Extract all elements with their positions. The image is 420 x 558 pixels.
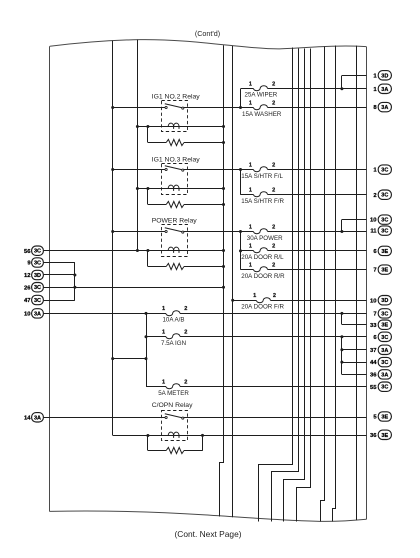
junction dot: WIPER branch / washer row bbox=[239, 106, 242, 109]
svg-text:3C: 3C bbox=[34, 285, 41, 291]
svg-text:2: 2 bbox=[272, 162, 275, 168]
svg-text:3E: 3E bbox=[381, 415, 388, 421]
wire: C/OPN coil row from bus L1 corner to pin 36(3E) bbox=[113, 435, 367, 437]
wire: 7.5A IGN fuse row left lead bbox=[146, 336, 166, 338]
fuse F1 element (25A WIPER) bbox=[254, 86, 268, 91]
relay U1 (IG1 NO.2) switch contact (right) bbox=[182, 107, 184, 109]
svg-text:10: 10 bbox=[370, 218, 377, 224]
junction dot: bus M1 / POWER resistor row bbox=[222, 265, 225, 268]
connector label 14 3A (left pin 14 3A) bbox=[24, 413, 43, 422]
connector label 10 3D (right pin 10 3D) bbox=[370, 296, 391, 305]
junction dot: bus L1 / IG1 NO.3 switch row bbox=[111, 168, 114, 171]
junction dot: bus L1 / IG1 NO.2 switch row bbox=[111, 106, 114, 109]
wire: pin 47(3C) row to step bus bbox=[44, 300, 75, 302]
svg-text:25A WIPER: 25A WIPER bbox=[245, 92, 278, 99]
svg-text:3A: 3A bbox=[381, 348, 388, 354]
junction dot: bus L2 / IG1 NO.3 coil row bbox=[136, 187, 139, 190]
svg-text:1: 1 bbox=[253, 293, 256, 299]
wire: C/OPN right jumper down to resistor row bbox=[202, 435, 204, 450]
junction dot: bus M1 / IG1 NO.3 resistor row bbox=[222, 203, 225, 206]
left step bus joining pins 9/12/26/47 bbox=[74, 263, 76, 301]
wire: branch row to pin 36(3A) bbox=[342, 374, 367, 376]
wire: 25A WIPER fuse row left lead bbox=[241, 88, 254, 90]
wire: branch row to pin 44(3C) bbox=[342, 362, 367, 364]
svg-text:10: 10 bbox=[370, 298, 377, 304]
svg-text:3C: 3C bbox=[34, 249, 41, 255]
fuse F10 element (7.5A IGN) bbox=[166, 334, 180, 339]
connector label 37 3A (right pin 37 3A) bbox=[370, 345, 391, 354]
relay U4 (C/OPN) parallel resistor element bbox=[166, 447, 184, 453]
svg-text:15A S/HTR F/R: 15A S/HTR F/R bbox=[241, 198, 284, 205]
relay U2 (IG1 NO.3) resistor left lead wire bbox=[148, 204, 166, 206]
junction dot: bus M1 / IG1 NO.3 coil row bbox=[222, 187, 225, 190]
relay U3 (POWER) parallel resistor element bbox=[166, 263, 184, 269]
relay U2 (IG1 NO.3) switch contact (left) bbox=[165, 168, 167, 170]
relay U4 (C/OPN) switch contact (right) bbox=[182, 417, 184, 419]
junction dot: stub SA / 30A POWER row bbox=[340, 230, 343, 233]
wire: IG1 NO.3 switch row from bus L1 to switch contact bbox=[113, 169, 166, 171]
svg-text:3A: 3A bbox=[381, 105, 388, 111]
junction dot: mid feed column / 7.5A IGN row bbox=[145, 335, 148, 338]
svg-text:2: 2 bbox=[184, 330, 187, 336]
svg-text:15A WASHER: 15A WASHER bbox=[242, 111, 282, 118]
svg-text:56: 56 bbox=[24, 249, 31, 255]
relay U1 (IG1 NO.2) coil winding bbox=[168, 123, 179, 129]
relay U4 (C/OPN) switch blade (open, resting above contacts) bbox=[165, 414, 182, 418]
junction dot: step bus / 12(3D) row bbox=[73, 274, 76, 277]
connector label 6 3E (right pin 6 3E) bbox=[373, 246, 391, 255]
svg-text:2: 2 bbox=[272, 262, 275, 268]
bus L1 (relay switch feed, top to C/OPN coil corner) bbox=[112, 41, 114, 436]
svg-text:1: 1 bbox=[249, 262, 252, 268]
svg-text:44: 44 bbox=[370, 360, 377, 366]
relay U3 (POWER) resistor left lead wire bbox=[148, 266, 166, 268]
svg-text:36: 36 bbox=[370, 373, 377, 379]
svg-text:3E: 3E bbox=[381, 249, 388, 255]
svg-text:11: 11 bbox=[370, 229, 377, 235]
relay U3 (POWER) dashed case outline bbox=[162, 225, 188, 257]
svg-text:26: 26 bbox=[24, 285, 31, 291]
fuse F7 element (20A DOOR R/R) bbox=[254, 267, 268, 272]
wire: IG1 NO.3 switch output row to 15A S/HTR F/L fuse bbox=[184, 169, 254, 171]
bus x336 with small jog to bottom exit bbox=[333, 46, 336, 522]
relay U2 (IG1 NO.3) coil winding bbox=[168, 185, 179, 191]
svg-text:(Cont. Next Page): (Cont. Next Page) bbox=[174, 529, 241, 539]
connector label 1 3D (right pin 1 3D) bbox=[373, 71, 391, 80]
relay U1 (IG1 NO.2) dashed case outline bbox=[162, 101, 188, 132]
svg-text:47: 47 bbox=[24, 298, 31, 304]
junction dot: S/HTR branch / F/L row bbox=[239, 168, 242, 171]
connector label 56 3C (left pin 56 3C) bbox=[24, 246, 43, 255]
junction dot: bus M1 / IG1 NO.2 resistor row bbox=[222, 141, 225, 144]
connector label 33 3E (right pin 33 3E) bbox=[370, 320, 391, 329]
relay U4 (C/OPN) switch contact (left) bbox=[165, 416, 167, 418]
junction dot: relay U4 (C/OPN) coil row / jumper bbox=[146, 434, 149, 437]
wire: 15A S/HTR F/R fuse row left lead bbox=[241, 194, 254, 196]
svg-text:36: 36 bbox=[370, 433, 377, 439]
svg-text:3C: 3C bbox=[381, 360, 388, 366]
svg-text:2: 2 bbox=[272, 188, 275, 194]
junction dot: relay U2 (IG1 NO.3) coil row / jumper bbox=[146, 187, 149, 190]
junction dot: relay U1 (IG1 NO.2) coil row / jumper bbox=[146, 125, 149, 128]
wire: 20A DOOR F/R fuse row from bus M2 bbox=[233, 300, 257, 302]
wire: 15A WASHER fuse output row to pin 8(3A) bbox=[268, 107, 367, 109]
relay U4 (C/OPN) coil-to-resistor jumper wire bbox=[147, 436, 149, 451]
svg-text:1: 1 bbox=[249, 224, 252, 230]
svg-text:3D: 3D bbox=[34, 273, 41, 279]
wire: branch row to pin 37(3A) bbox=[342, 349, 367, 351]
connector label 47 3C (left pin 47 3C) bbox=[24, 295, 43, 304]
wire: feed column from 30A POWER row down to 20A DOOR R/R fuse bbox=[240, 232, 242, 270]
relay U1 (IG1 NO.2) switch blade (open, resting above contacts) bbox=[165, 104, 182, 108]
connector label 26 3C (left pin 26 3C) bbox=[24, 283, 43, 292]
relay U1 (IG1 NO.2) coil-to-resistor jumper wire bbox=[147, 127, 149, 143]
svg-text:5A METER: 5A METER bbox=[158, 390, 189, 397]
relay U4 (C/OPN) dashed case outline bbox=[162, 411, 188, 441]
page bottom border (scan-curved) bbox=[50, 511, 367, 521]
svg-text:1: 1 bbox=[162, 380, 165, 386]
svg-text:3C: 3C bbox=[381, 229, 388, 235]
relay U2 (IG1 NO.3) dashed case outline bbox=[162, 164, 188, 195]
svg-text:33: 33 bbox=[370, 323, 377, 329]
junction dot: stub SC / 44(3C) row bbox=[340, 361, 343, 364]
svg-text:10: 10 bbox=[24, 312, 31, 318]
bus M1 lower jog to bottom border bbox=[220, 463, 224, 517]
svg-text:3C: 3C bbox=[381, 311, 388, 317]
svg-text:3A: 3A bbox=[34, 311, 41, 317]
junction dot: relay U3 (POWER) coil row / jumper bbox=[146, 249, 149, 252]
bus L2 (relay coil feed, top to POWER relay coil row) bbox=[137, 40, 139, 251]
wire: branch row to pin 33(3E) bbox=[342, 324, 367, 326]
relay U4 (C/OPN) coil winding bbox=[168, 432, 179, 438]
svg-text:3E: 3E bbox=[381, 433, 388, 439]
wire: branch row to pin 10(3C) bbox=[342, 219, 367, 221]
wire: POWER relay switch row from bus L1 to switch contact bbox=[113, 231, 166, 233]
wire: C/OPN relay switch output row to pin 5(3E) bbox=[184, 417, 367, 419]
svg-text:20A DOOR R/R: 20A DOOR R/R bbox=[241, 273, 285, 280]
relay U3 (POWER) switch contact (right) bbox=[182, 231, 184, 233]
junction dot: bus L2 / IG1 NO.2 coil row bbox=[136, 125, 139, 128]
svg-text:7.5A IGN: 7.5A IGN bbox=[161, 340, 186, 347]
svg-text:37: 37 bbox=[370, 348, 377, 354]
relay U1 (IG1 NO.2) parallel resistor element bbox=[166, 139, 184, 145]
svg-text:3C: 3C bbox=[381, 335, 388, 341]
svg-text:3C: 3C bbox=[381, 218, 388, 224]
connector label 36 3A (right pin 36 3A) bbox=[370, 370, 391, 379]
svg-text:55: 55 bbox=[370, 385, 377, 391]
wire: 7.5A IGN fuse output row to pin 6(3C) bbox=[180, 336, 366, 338]
fuse F4 element (15A S/HTR F/R) bbox=[254, 192, 268, 197]
bus B3 with staircase step to bottom exit bbox=[284, 49, 305, 522]
relay U3 (POWER) switch contact (left) bbox=[165, 230, 167, 232]
wire: pin 9(3C) row to step bus bbox=[44, 262, 75, 264]
junction dot: mid fuse feed column / 10A A/B row bbox=[145, 312, 148, 315]
wire: feed branch down to 15A S/HTR F/R fuse bbox=[240, 170, 242, 195]
connector label 6 3C (right pin 6 3C) bbox=[373, 332, 391, 341]
fuse F5 element (30A POWER) bbox=[254, 229, 268, 234]
relay U2 (IG1 NO.3) coil-to-resistor jumper wire bbox=[147, 189, 149, 205]
junction dot: stub SC / 37(3A) row bbox=[340, 348, 343, 351]
wire: branch row to pin 1(3D) bbox=[342, 75, 367, 77]
relay U1 (IG1 NO.2) resistor left lead wire bbox=[148, 142, 166, 144]
wire: bus L1 branch to mid fuse feed column bbox=[113, 358, 146, 360]
junction dot: bus L2 end / POWER coil row bbox=[136, 249, 139, 252]
svg-text:2: 2 bbox=[273, 293, 276, 299]
svg-text:20A DOOR R/L: 20A DOOR R/L bbox=[241, 254, 284, 261]
bus B4 with staircase step to bottom exit bbox=[297, 49, 311, 522]
svg-text:1: 1 bbox=[249, 244, 252, 250]
svg-text:2: 2 bbox=[272, 224, 275, 230]
wire: 5A METER fuse row left lead bbox=[146, 386, 166, 388]
junction dot: bus M1 / POWER coil row bbox=[222, 249, 225, 252]
relay U2 (IG1 NO.3) switch contact (right) bbox=[182, 169, 184, 171]
svg-text:3A: 3A bbox=[381, 87, 388, 93]
svg-text:C/OPN Relay: C/OPN Relay bbox=[152, 402, 193, 409]
junction dot: bus M2 / 20A DOOR F/R row bbox=[231, 299, 234, 302]
svg-text:3E: 3E bbox=[381, 268, 388, 274]
connector label 55 3C (right pin 55 3C) bbox=[370, 382, 391, 391]
svg-text:2: 2 bbox=[272, 244, 275, 250]
fuse F3 element (15A S/HTR F/L) bbox=[254, 167, 268, 172]
svg-text:3C: 3C bbox=[381, 168, 388, 174]
wire: 20A DOOR R/R fuse output row to pin 7(3E) bbox=[268, 269, 367, 271]
wire: IG1 NO.2 coil row from bus L2 to bus M1 bbox=[137, 126, 223, 128]
svg-text:1: 1 bbox=[249, 82, 252, 88]
wire: 20A DOOR F/R fuse output row to pin 10(3D) bbox=[271, 300, 367, 302]
relay U4 (C/OPN) resistor left lead wire bbox=[148, 450, 166, 452]
svg-text:14: 14 bbox=[24, 415, 31, 421]
wire: pin 56(3C) row to POWER relay coil to bus M1 bbox=[44, 250, 224, 252]
relay U3 (POWER) coil winding bbox=[168, 247, 179, 253]
stub SA: 10(3C) branch down to 30A POWER row bbox=[341, 220, 343, 232]
svg-text:10A A/B: 10A A/B bbox=[162, 317, 184, 324]
svg-text:IG1 NO.3 Relay: IG1 NO.3 Relay bbox=[152, 157, 201, 164]
svg-text:IG1 NO.2 Relay: IG1 NO.2 Relay bbox=[152, 94, 201, 101]
fuse F8 element (20A DOOR F/R) bbox=[257, 298, 271, 303]
svg-text:3C: 3C bbox=[381, 385, 388, 391]
wire: pin 14(3A) row to C/OPN relay switch contact bbox=[44, 417, 165, 419]
svg-text:3D: 3D bbox=[381, 298, 388, 304]
svg-text:3E: 3E bbox=[381, 323, 388, 329]
wire: 20A DOOR R/R fuse row left lead bbox=[241, 269, 254, 271]
relay U4 (C/OPN) resistor right lead wire bbox=[184, 450, 203, 452]
wire: pin 10(3A) row to 10A A/B fuse bbox=[44, 313, 166, 315]
relay U1 (IG1 NO.2) switch contact (left) bbox=[165, 106, 167, 108]
relay U3 (POWER) resistor right lead wire bbox=[184, 266, 224, 268]
svg-text:2: 2 bbox=[184, 306, 187, 312]
page right border bbox=[366, 47, 368, 520]
relay U3 (POWER) switch blade (open, resting above contacts) bbox=[165, 228, 182, 232]
bus x324 with small jog to bottom exit bbox=[321, 47, 325, 522]
fuse F6 element (20A DOOR R/L) bbox=[254, 248, 268, 253]
fuse F2 element (15A WASHER) bbox=[254, 105, 268, 110]
wire: pin 26(3C) row across step bus to bus M1 bbox=[44, 287, 224, 289]
svg-text:3C: 3C bbox=[34, 298, 41, 304]
junction dot: C/OPN right jumper / coil row bbox=[201, 434, 204, 437]
svg-text:12: 12 bbox=[24, 273, 31, 279]
connector label 36 3E (right pin 36 3E) bbox=[370, 430, 391, 439]
stub SB: 33(3E) branch from 10A A/B output row bbox=[341, 314, 343, 325]
wire: POWER relay switch output row to 30A POWER fuse bbox=[184, 231, 254, 233]
connector label 12 3D (left pin 12 3D) bbox=[24, 270, 43, 279]
junction dot: stub SB / 10A A/B output row bbox=[340, 312, 343, 315]
connector label 11 3C (right pin 11 3C) bbox=[370, 226, 391, 235]
junction dot: bus L1 / POWER relay switch row bbox=[111, 230, 114, 233]
connector label 5 3E (right pin 5 3E) bbox=[373, 412, 391, 421]
svg-text:3C: 3C bbox=[34, 261, 41, 267]
bus M2 (top border to bottom border) bbox=[232, 46, 234, 518]
junction dot: bus M1 / 26(3C) row end bbox=[222, 286, 225, 289]
svg-text:1: 1 bbox=[249, 162, 252, 168]
page left border bbox=[49, 46, 51, 511]
junction dot: stub SC / 7.5A IGN output row bbox=[340, 335, 343, 338]
wire: 15A S/HTR F/L fuse output row to pin 1(3C) bbox=[268, 169, 367, 171]
wire: 30A POWER fuse output row to pin 11(3C) bbox=[268, 231, 367, 233]
wire: 5A METER fuse output row to pin 55(3C) bbox=[180, 386, 366, 388]
svg-text:3D: 3D bbox=[381, 73, 388, 79]
svg-text:3A: 3A bbox=[381, 372, 388, 378]
relay U2 (IG1 NO.3) switch blade (open, resting above contacts) bbox=[165, 166, 182, 170]
connector label 1 3A (right pin 1 3A) bbox=[373, 84, 391, 93]
junction dot: mid feed column / branch wire bbox=[145, 357, 148, 360]
svg-text:(Cont'd): (Cont'd) bbox=[195, 29, 220, 38]
wire: IG1 NO.2 switch row from bus L1 to switch contact bbox=[113, 107, 166, 109]
svg-text:1: 1 bbox=[162, 330, 165, 336]
svg-text:3A: 3A bbox=[34, 415, 41, 421]
connector label 44 3C (right pin 44 3C) bbox=[370, 357, 391, 366]
svg-text:2: 2 bbox=[184, 380, 187, 386]
wire: IG1 NO.2 switch output row to 15A WASHER fuse bbox=[184, 107, 254, 109]
wire: 10A A/B fuse output row to pin 7(3C) bbox=[180, 313, 366, 315]
bus B1 with staircase step to bottom exit bbox=[259, 48, 293, 522]
connector label 7 3E (right pin 7 3E) bbox=[373, 265, 391, 274]
wire: 15A S/HTR F/R fuse output row to pin 2(3C) bbox=[268, 194, 367, 196]
junction dot: feed column / 20A DOOR R/L row bbox=[239, 249, 242, 252]
connector label 10 3A (left pin 10 3A) bbox=[24, 309, 43, 318]
svg-text:20A DOOR F/R: 20A DOOR F/R bbox=[241, 304, 284, 311]
svg-text:2: 2 bbox=[272, 100, 275, 106]
bus x356 (top border to bottom border) bbox=[356, 46, 358, 520]
connector label 2 3C (right pin 2 3C) bbox=[373, 190, 391, 199]
junction dot: stub S0 / WIPER row bbox=[340, 87, 343, 90]
connector label 10 3C (right pin 10 3C) bbox=[370, 215, 391, 224]
svg-text:3C: 3C bbox=[381, 193, 388, 199]
junction dot: bus M1 / IG1 NO.2 coil row bbox=[222, 125, 225, 128]
wire: feed branch up to 25A WIPER fuse bbox=[240, 89, 242, 108]
wire: mid fuse feed column down to 5A METER fuse bbox=[146, 313, 148, 386]
fuse F11 element (5A METER) bbox=[166, 384, 180, 389]
relay U1 (IG1 NO.2) resistor right lead wire bbox=[184, 142, 224, 144]
connector label 9 3C (left pin 9 3C) bbox=[27, 258, 43, 267]
junction dot: step bus / 26(3C) row bbox=[73, 286, 76, 289]
wire: 20A DOOR R/L fuse output row to pin 6(3E) bbox=[268, 250, 367, 252]
svg-text:2: 2 bbox=[272, 82, 275, 88]
wire: pin 12(3D) row to step bus bbox=[44, 274, 75, 276]
relay U2 (IG1 NO.3) parallel resistor element bbox=[166, 201, 184, 207]
fuse F9 element (10A A/B) bbox=[166, 311, 180, 316]
connector label 7 3C (right pin 7 3C) bbox=[373, 309, 391, 318]
relay U2 (IG1 NO.3) resistor right lead wire bbox=[184, 204, 224, 206]
junction dot: door-fuse feed column / 30A POWER row bbox=[239, 230, 242, 233]
bus B2 with staircase step to bottom exit bbox=[272, 49, 299, 522]
svg-text:POWER Relay: POWER Relay bbox=[152, 217, 198, 224]
bus M1 upper segment (top border to jog) bbox=[223, 45, 225, 463]
connector label 8 3A (right pin 8 3A) bbox=[373, 102, 391, 111]
wire: 20A DOOR R/L fuse row left lead bbox=[241, 250, 254, 252]
stub S0: 1(3D) branch down to WIPER output row bbox=[341, 76, 343, 89]
relay U3 (POWER) coil-to-resistor jumper wire bbox=[147, 251, 149, 267]
svg-text:1: 1 bbox=[249, 188, 252, 194]
connector label 1 3C (right pin 1 3C) bbox=[373, 165, 391, 174]
wire: 25A WIPER fuse output row to pin 1(3A) bbox=[268, 88, 367, 90]
svg-text:1: 1 bbox=[249, 100, 252, 106]
svg-text:15A S/HTR F/L: 15A S/HTR F/L bbox=[241, 173, 283, 180]
junction dot: bus L1 / branch wire bbox=[111, 357, 114, 360]
svg-text:1: 1 bbox=[162, 306, 165, 312]
wire: IG1 NO.3 coil row from bus L2 to bus M1 bbox=[137, 188, 223, 190]
stub SC: 6(3C)/37(3A)/44(3C)/36(3A) tie bus bbox=[341, 338, 343, 375]
page top border (scan-curved) bbox=[50, 40, 367, 49]
svg-text:30A POWER: 30A POWER bbox=[247, 235, 283, 242]
